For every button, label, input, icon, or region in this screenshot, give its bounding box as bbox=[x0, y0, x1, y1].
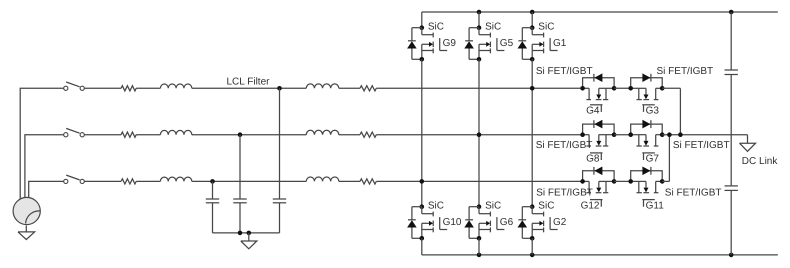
wire capacitor common rail bbox=[213, 232, 280, 234]
node phase 2 capacitor tap bbox=[238, 132, 243, 137]
resistor R1 bbox=[121, 86, 136, 91]
diode D9 (antiparallel of G9) bbox=[407, 28, 422, 60]
diode D2 (antiparallel of G2) bbox=[518, 207, 533, 239]
label Si FET/IGBT phase A left bbox=[536, 66, 593, 77]
node phase 1 capacitor tap bbox=[277, 86, 282, 91]
capacitor C3 bbox=[206, 181, 219, 233]
inductor L2 bbox=[160, 130, 191, 134]
wire phase 1 to bidirectional pair bbox=[376, 87, 582, 89]
svg-text:G3: G3 bbox=[646, 106, 660, 117]
node G5 drain bbox=[477, 25, 482, 30]
svg-text:G9: G9 bbox=[443, 38, 457, 49]
node G6 drain bbox=[477, 204, 482, 209]
resistor R3 bbox=[121, 179, 136, 184]
transistor G9 SiC MOSFET bbox=[422, 28, 447, 60]
transistor G3 Si FET/IGBT bbox=[631, 88, 663, 112]
diode DG12 (antiparallel of G12) bbox=[583, 167, 615, 182]
node G10 drain bbox=[420, 204, 425, 209]
node G3 right bbox=[660, 86, 665, 91]
node bottom rail dc-link bbox=[729, 253, 734, 258]
inductor L5 bbox=[306, 130, 339, 134]
svg-text:SiC: SiC bbox=[485, 22, 501, 33]
transistor G2 SiC MOSFET bbox=[532, 207, 557, 239]
node G12 left bbox=[580, 179, 585, 184]
node G7 right bbox=[660, 132, 665, 137]
svg-text:SiC: SiC bbox=[428, 22, 444, 33]
label SiC of G2 bbox=[538, 201, 554, 212]
node G1 source bbox=[530, 57, 535, 62]
node bottom rail leg3 bbox=[530, 253, 535, 258]
node G1 drain bbox=[530, 25, 535, 30]
label G4 bbox=[586, 106, 600, 117]
node G9 source bbox=[420, 57, 425, 62]
inductor L6 bbox=[306, 177, 339, 181]
node G11 right bbox=[660, 179, 665, 184]
diode D5 (antiparallel of G5) bbox=[464, 28, 479, 60]
capacitor C5 (dc link bottom) bbox=[725, 186, 738, 191]
node G8 left bbox=[580, 132, 585, 137]
svg-text:Si FET/IGBT: Si FET/IGBT bbox=[536, 187, 593, 198]
node phase C to leg1 bbox=[420, 179, 425, 184]
transistor G6 SiC MOSFET bbox=[479, 207, 504, 239]
label Si FET/IGBT phase B right bbox=[673, 140, 730, 151]
label DC Link bbox=[742, 156, 779, 167]
wire phase 3 L to second L bbox=[192, 180, 306, 182]
wire DC link arrow stem bbox=[747, 135, 749, 144]
capacitor C1 bbox=[273, 88, 286, 233]
transistor G12 Si FET/IGBT bbox=[583, 181, 615, 206]
svg-text:G7: G7 bbox=[646, 154, 660, 165]
transistor G11 Si FET/IGBT bbox=[631, 181, 663, 206]
node G7 left bbox=[628, 132, 633, 137]
wire phase 3 R to L bbox=[136, 180, 160, 182]
node G10 source bbox=[420, 236, 425, 241]
svg-text:G6: G6 bbox=[500, 217, 514, 228]
wire phase 1 switch to R bbox=[84, 87, 121, 89]
svg-text:G1: G1 bbox=[553, 38, 567, 49]
node ground tap bbox=[247, 231, 252, 236]
label G8 bbox=[586, 154, 600, 165]
diode D6 (antiparallel of G6) bbox=[464, 207, 479, 239]
label G12 bbox=[581, 200, 600, 211]
label LCL Filter bbox=[227, 76, 271, 87]
node G8 right bbox=[612, 132, 617, 137]
resistor R2 bbox=[121, 132, 136, 137]
label G2 bbox=[553, 217, 567, 228]
wire midpoint to DC link bbox=[662, 134, 747, 136]
wire DC+ top rail bbox=[422, 11, 778, 13]
svg-text:G4: G4 bbox=[586, 106, 600, 117]
diode D1 (antiparallel of G1) bbox=[518, 28, 533, 60]
node C2 on common rail bbox=[238, 231, 243, 236]
node top rail leg3 bbox=[530, 10, 535, 15]
diode DG8 (antiparallel of G8) bbox=[583, 120, 615, 135]
transistor G4 Si FET/IGBT bbox=[583, 88, 615, 112]
node G12 right bbox=[612, 179, 617, 184]
ac source ground bbox=[18, 232, 35, 240]
label G1 bbox=[553, 38, 567, 49]
svg-text:SiC: SiC bbox=[538, 22, 554, 33]
transistor G5 SiC MOSFET bbox=[479, 28, 504, 60]
wire leg 2 from top rail bbox=[478, 12, 480, 28]
label G3 bbox=[646, 106, 660, 117]
DC link net symbol bbox=[740, 143, 756, 151]
capacitor C2 bbox=[233, 135, 246, 233]
wire phase C pair output bbox=[662, 135, 669, 182]
wire source to phase C bbox=[29, 181, 64, 202]
wire DC- bottom rail bbox=[422, 254, 778, 256]
label SiC of G6 bbox=[485, 201, 501, 212]
wire phase 3 to R2 bbox=[339, 180, 360, 182]
wire phase 1 R to L bbox=[136, 87, 160, 89]
wire between G12 and G11 bbox=[614, 180, 631, 182]
svg-text:G2: G2 bbox=[553, 217, 567, 228]
svg-text:G5: G5 bbox=[500, 38, 514, 49]
svg-text:SiC: SiC bbox=[538, 201, 554, 212]
node midpoint phase A bbox=[678, 132, 683, 137]
inductor L3 bbox=[160, 177, 191, 181]
label G6 bbox=[500, 217, 514, 228]
svg-text:LCL Filter: LCL Filter bbox=[227, 76, 271, 87]
diode D10 (antiparallel of G10) bbox=[407, 207, 422, 239]
node G11 left bbox=[628, 179, 633, 184]
wire leg 2 to bottom rail bbox=[478, 238, 480, 255]
wire leg 1 middle bbox=[421, 59, 423, 206]
node G4 right bbox=[612, 86, 617, 91]
capacitor C4 (dc link top) bbox=[725, 70, 738, 75]
diode DG3 (antiparallel of G3) bbox=[631, 73, 663, 88]
label SiC of G1 bbox=[538, 22, 554, 33]
node G9 drain bbox=[420, 25, 425, 30]
wire phase 2 R to L bbox=[136, 134, 160, 136]
node phase B to leg2 bbox=[477, 132, 482, 137]
wire phase 1 L to second L bbox=[192, 87, 306, 89]
label G7 bbox=[646, 154, 660, 165]
wire leg 1 from top rail bbox=[421, 12, 423, 28]
wire dc rail top segment bbox=[730, 12, 732, 70]
transistor G1 SiC MOSFET bbox=[532, 28, 557, 60]
wire phase A pair output bbox=[662, 88, 680, 134]
resistor R5 bbox=[360, 132, 376, 137]
svg-text:G10: G10 bbox=[443, 217, 462, 228]
transistor G7 Si FET/IGBT bbox=[631, 135, 663, 160]
label SiC of G5 bbox=[485, 22, 501, 33]
switch SW2 bbox=[64, 128, 85, 136]
wire phase 2 L to second L bbox=[192, 134, 306, 136]
wire leg 3 middle bbox=[531, 59, 533, 206]
wire between G8 and G7 bbox=[614, 134, 631, 136]
node G2 drain bbox=[530, 204, 535, 209]
inductor L1 bbox=[160, 84, 191, 88]
node top rail dc-link bbox=[729, 10, 734, 15]
filter ground bbox=[241, 233, 257, 249]
label G9 bbox=[443, 38, 457, 49]
node bottom rail leg2 bbox=[477, 253, 482, 258]
inductor L4 bbox=[306, 84, 339, 88]
wire ac source stem to ground bbox=[25, 226, 27, 232]
resistor R6 bbox=[360, 179, 376, 184]
switch SW1 bbox=[64, 82, 85, 90]
label SiC of G9 bbox=[428, 22, 444, 33]
svg-text:Si FET/IGBT: Si FET/IGBT bbox=[665, 187, 722, 198]
wire between G4 and G3 bbox=[614, 87, 631, 89]
switch SW3 bbox=[64, 175, 85, 183]
svg-text:Si FET/IGBT: Si FET/IGBT bbox=[536, 66, 593, 77]
label Si FET/IGBT phase C right bbox=[665, 187, 722, 198]
wire leg 3 to bottom rail bbox=[531, 238, 533, 255]
label Si FET/IGBT phase A right bbox=[657, 66, 714, 77]
node G4 left bbox=[580, 86, 585, 91]
transistor G8 Si FET/IGBT bbox=[583, 135, 615, 160]
wire phase 2 to R2 bbox=[339, 134, 360, 136]
node phase 3 capacitor tap bbox=[210, 179, 215, 184]
diode DG7 (antiparallel of G7) bbox=[631, 120, 663, 135]
label G10 bbox=[443, 217, 462, 228]
node midpoint phase C bbox=[667, 132, 672, 137]
wire source to phase B bbox=[25, 135, 64, 202]
node phase A to leg3 bbox=[530, 86, 535, 91]
wire phase 2 switch to R bbox=[84, 134, 121, 136]
wire dc rail bottom segment bbox=[730, 190, 732, 255]
wire leg 2 middle bbox=[478, 59, 480, 206]
node G5 source bbox=[477, 57, 482, 62]
wire dc rail middle segment bbox=[730, 75, 732, 186]
svg-text:SiC: SiC bbox=[485, 201, 501, 212]
node G6 source bbox=[477, 236, 482, 241]
node G2 source bbox=[530, 236, 535, 241]
wire phase 3 to bidirectional pair bbox=[376, 180, 582, 182]
ac source G1 (grid) bbox=[13, 197, 40, 224]
svg-text:Si FET/IGBT: Si FET/IGBT bbox=[673, 140, 730, 151]
wire leg 3 from top rail bbox=[531, 12, 533, 28]
transistor G10 SiC MOSFET bbox=[422, 207, 447, 239]
resistor R4 bbox=[360, 86, 376, 91]
node top rail leg2 bbox=[477, 10, 482, 15]
diode DG11 (antiparallel of G11) bbox=[631, 167, 663, 182]
node G3 left bbox=[628, 86, 633, 91]
svg-text:DC Link: DC Link bbox=[742, 156, 779, 167]
label Si FET/IGBT phase B left bbox=[536, 140, 593, 151]
wire phase 3 switch to R bbox=[84, 180, 121, 182]
svg-text:G8: G8 bbox=[586, 154, 600, 165]
label Si FET/IGBT phase C left bbox=[536, 187, 593, 198]
svg-text:Si FET/IGBT: Si FET/IGBT bbox=[536, 140, 593, 151]
diode DG4 (antiparallel of G4) bbox=[583, 73, 615, 88]
label G11 bbox=[646, 200, 665, 211]
svg-text:Si FET/IGBT: Si FET/IGBT bbox=[657, 66, 714, 77]
svg-text:G12: G12 bbox=[581, 200, 600, 211]
svg-text:SiC: SiC bbox=[428, 201, 444, 212]
wire phase 2 to bidirectional pair bbox=[376, 134, 582, 136]
label SiC of G10 bbox=[428, 201, 444, 212]
label G5 bbox=[500, 38, 514, 49]
wire leg 1 to bottom rail bbox=[421, 238, 423, 255]
svg-text:G11: G11 bbox=[646, 200, 665, 211]
wire source to phase A bbox=[20, 88, 64, 204]
wire phase 1 to R2 bbox=[339, 87, 360, 89]
